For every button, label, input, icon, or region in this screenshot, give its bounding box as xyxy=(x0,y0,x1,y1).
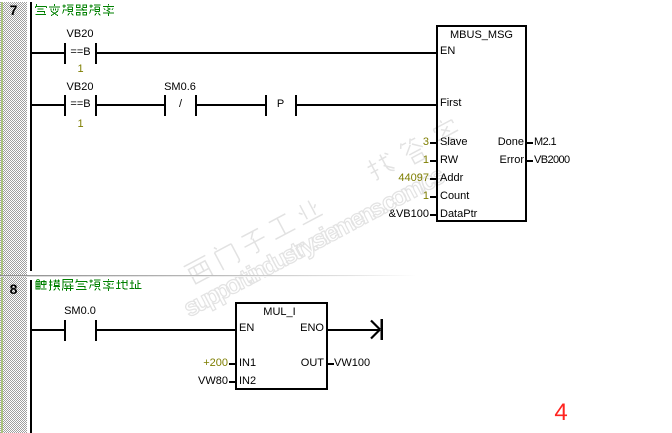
label VB20 (contact K1 operand) xyxy=(58,29,102,40)
pin Count (U1 input) xyxy=(440,191,469,202)
contact K1: VB20 ==B 1 compare contact xyxy=(64,43,66,64)
tick Addr pin xyxy=(430,178,436,180)
label SM0.6 (contact K3 operand) xyxy=(158,82,202,93)
tick Slave pin xyxy=(430,142,436,144)
wire rail to contact K5 xyxy=(32,329,64,331)
network separator line xyxy=(0,275,672,276)
pin Addr (U1 input) xyxy=(440,173,463,184)
pin IN1 (U2 input) xyxy=(239,358,256,369)
label P (contact K4 edge marker) xyxy=(266,99,295,110)
label MBUS_MSG (block U1 title) xyxy=(436,30,527,41)
network 8 number xyxy=(8,282,19,296)
pin RW (U1 input) xyxy=(440,155,458,166)
wire contact K1 to MBUS_MSG EN xyxy=(97,52,436,54)
pin Done (U1 output) xyxy=(460,137,524,148)
open rung arrow terminator xyxy=(368,317,386,343)
network 7 title (green CJK text) xyxy=(35,4,117,17)
wire contact K2 to contact K3 xyxy=(97,104,164,106)
pin DataPtr (U1 input) xyxy=(440,209,477,220)
label SM0.0 (contact K5 operand) xyxy=(58,306,102,317)
left power rail, network 8 xyxy=(30,280,32,433)
label MUL_I (block U2 title) xyxy=(235,307,324,318)
watermark (diagonal site watermark) xyxy=(179,109,486,294)
wire ENO output xyxy=(328,329,380,331)
value 44097 (Addr) xyxy=(360,173,429,184)
value 1 (contact K1 compare value) xyxy=(66,64,95,75)
contact K2: VB20 ==B 1 compare contact xyxy=(64,95,66,116)
pin EN (U2 input) xyxy=(239,323,254,334)
pin Error (U1 output) xyxy=(460,155,524,166)
wire contact K5 to MUL_I EN xyxy=(97,329,235,331)
tick Done pin xyxy=(527,142,533,144)
tick RW pin xyxy=(430,160,436,162)
tick DataPtr pin xyxy=(430,214,436,216)
tick OUT pin xyxy=(328,363,334,365)
value &VB100 (DataPtr) xyxy=(360,209,429,220)
tick Count pin xyxy=(430,196,436,198)
label ==B (contact K2 compare type) xyxy=(66,99,95,110)
pin EN (U1 input) xyxy=(440,46,455,57)
wire rail to contact K1 (rung 1) xyxy=(32,52,64,54)
red page number 4 xyxy=(549,399,573,427)
value 1 (RW) xyxy=(360,155,429,166)
pin ENO (U2 output) xyxy=(260,323,324,334)
label / (contact K3 NOT marker) xyxy=(166,99,195,110)
pin Slave (U1 input) xyxy=(440,137,468,148)
value 1 (contact K2 compare value) xyxy=(66,119,95,130)
contact K4: P positive edge contact xyxy=(265,95,267,116)
pin IN2 (U2 input) xyxy=(239,376,256,387)
value VW80 (IN2) xyxy=(180,376,228,387)
wire contact K3 to contact K4 xyxy=(197,104,265,106)
contact K5: SM0.0 normally-open contact xyxy=(64,320,66,341)
wire rail to contact K2 (rung 2) xyxy=(32,104,64,106)
contact K3: SM0.6 normally-closed contact xyxy=(164,95,166,116)
network 8 title (green CJK text) xyxy=(35,279,144,292)
value +200 (IN1) xyxy=(180,358,228,369)
value 3 (Slave) xyxy=(360,137,429,148)
value 1 (Count) xyxy=(360,191,429,202)
value VB2000 (Error) xyxy=(534,155,570,166)
wire contact K4 to MBUS_MSG First xyxy=(297,104,436,106)
pin First (U1 input) xyxy=(440,98,461,109)
label VB20 (contact K2 operand) xyxy=(58,82,102,93)
network margin sidebar (dithered) xyxy=(0,0,27,433)
function block U2 MUL_I outline xyxy=(235,302,328,390)
tick Error pin xyxy=(527,160,533,162)
pin OUT (U2 output) xyxy=(260,358,324,369)
tick IN1 pin xyxy=(229,363,235,365)
tick IN2 pin xyxy=(229,381,235,383)
function block U1 MBUS_MSG outline xyxy=(436,25,527,222)
network 7 number xyxy=(8,3,19,17)
value VW100 (OUT) xyxy=(334,358,370,369)
value M2.1 (Done) xyxy=(534,137,556,148)
sidebar green strip xyxy=(1,0,3,433)
label ==B (contact K1 compare type) xyxy=(66,47,95,58)
left power rail, network 7 xyxy=(30,2,32,271)
